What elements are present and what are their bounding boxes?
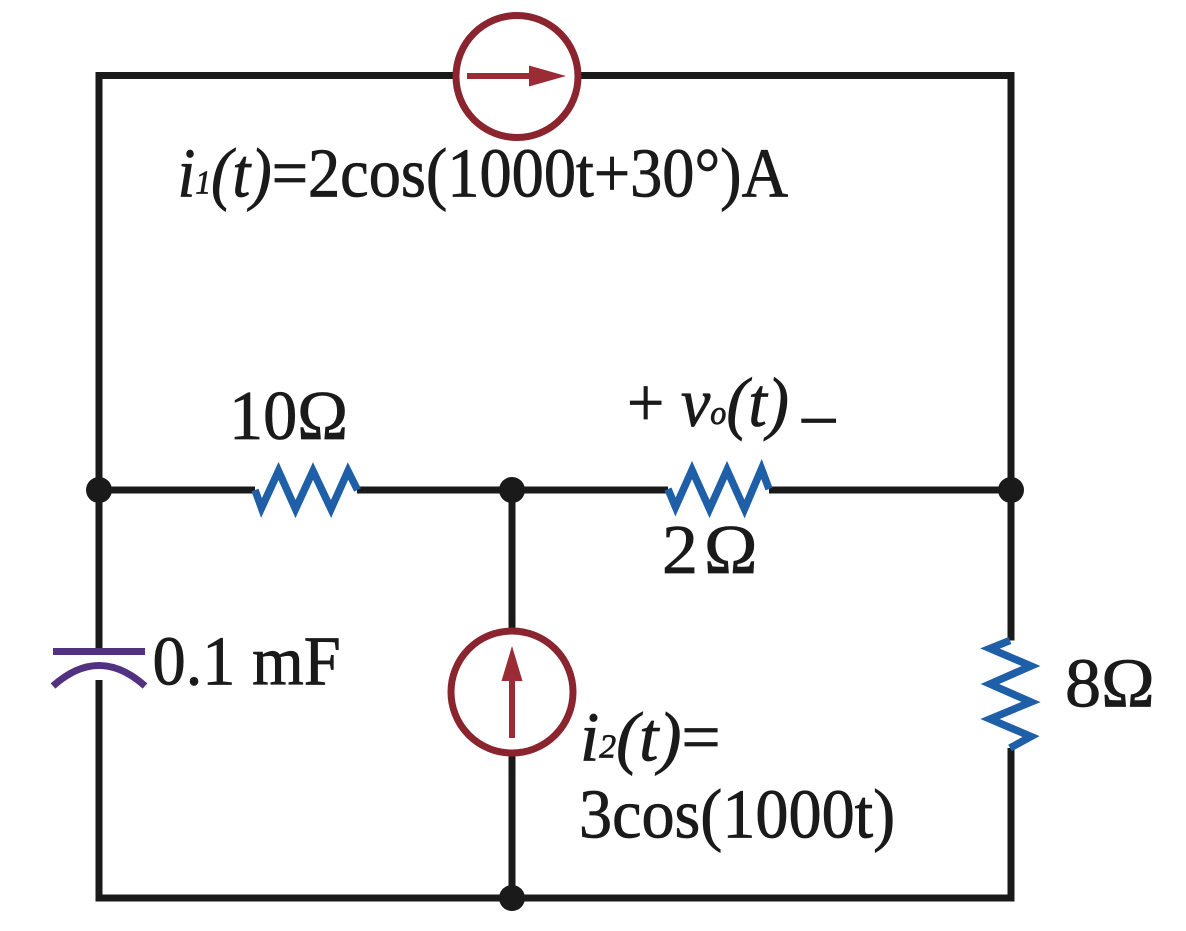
- node B: [499, 477, 525, 503]
- label 8ohm: [1065, 645, 1155, 722]
- label 0.1 mF: [153, 622, 341, 700]
- svg-text:0.1 mF: 0.1 mF: [153, 622, 341, 700]
- svg-text:i1(t)=2cos(1000t+30°)A: i1(t)=2cos(1000t+30°)A: [178, 134, 789, 212]
- node C: [998, 477, 1024, 503]
- node D: [499, 885, 525, 911]
- wire middle rail: [99, 487, 1011, 494]
- svg-text:3cos(1000t): 3cos(1000t): [579, 775, 895, 853]
- current source I1: [456, 16, 578, 138]
- resistor R1 10ohm: [255, 471, 358, 509]
- label 3cos: [579, 775, 895, 853]
- wire outer loop: [99, 76, 1011, 899]
- label vo(t): [627, 363, 836, 452]
- capacitor C: [53, 652, 145, 687]
- label 10ohm: [229, 376, 348, 454]
- svg-text:2 Ω: 2 Ω: [662, 512, 757, 589]
- node A: [86, 477, 112, 503]
- label 2ohm: [662, 512, 757, 589]
- svg-text:8Ω: 8Ω: [1065, 645, 1155, 722]
- wire middle vertical: [509, 490, 516, 898]
- current source I2: [451, 631, 573, 753]
- svg-text:10Ω: 10Ω: [229, 376, 348, 454]
- label i2: [580, 699, 721, 776]
- resistor R2 2ohm: [668, 469, 769, 509]
- label i1: [178, 134, 789, 212]
- svg-text:+ vo(t) –: + vo(t) –: [627, 363, 836, 452]
- svg-text:i2(t)=: i2(t)=: [580, 699, 721, 776]
- resistor R3 8ohm: [990, 641, 1031, 749]
